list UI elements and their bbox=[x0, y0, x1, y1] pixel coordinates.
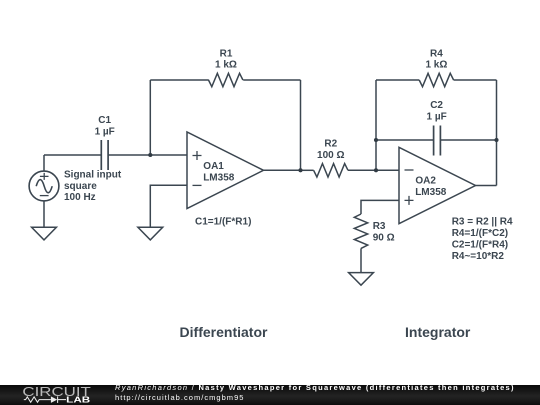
junction node (x=376 / C2 left) bbox=[374, 138, 378, 142]
op-amp U1 OA1 triangle bbox=[187, 132, 264, 209]
svg-text:R4=1/(F*C2): R4=1/(F*C2) bbox=[452, 228, 508, 239]
wire C2 left bbox=[376, 139, 434, 141]
svg-text:OA2: OA2 bbox=[415, 176, 436, 187]
OA1 - input pin symbol bbox=[193, 184, 202, 186]
OA2 - input pin symbol bbox=[405, 169, 414, 171]
wire C1 to OA1 + input bbox=[108, 154, 187, 156]
CircuitLab logo bbox=[0, 384, 110, 405]
svg-text:R2: R2 bbox=[324, 139, 337, 150]
wire OA2 output bbox=[476, 185, 497, 187]
wire R1 left column bbox=[149, 80, 151, 155]
svg-text:100 Hz: 100 Hz bbox=[64, 192, 96, 203]
svg-text:1 µF: 1 µF bbox=[95, 126, 115, 137]
svg-text:LM358: LM358 bbox=[203, 172, 235, 183]
svg-text:Differentiator: Differentiator bbox=[180, 324, 268, 340]
wire R4 right column bbox=[496, 80, 498, 186]
svg-text:1 kΩ: 1 kΩ bbox=[215, 60, 237, 71]
svg-text:OA1: OA1 bbox=[203, 161, 224, 172]
svg-text:LM358: LM358 bbox=[415, 187, 447, 198]
svg-text:R3: R3 bbox=[373, 221, 386, 232]
wire R1 right column down to OA1 output bbox=[300, 80, 302, 170]
wire source top to main line bbox=[43, 155, 45, 171]
resistor R1 bbox=[150, 73, 300, 86]
footer bar bbox=[0, 385, 540, 405]
resistor R3 bbox=[354, 214, 367, 273]
capacitor C2 bbox=[434, 126, 441, 156]
svg-text:R4: R4 bbox=[430, 49, 443, 60]
op-amp U2 OA2 triangle bbox=[399, 147, 476, 223]
capacitor C1 bbox=[101, 140, 108, 170]
junction node (OA1 output / R1 / R2) bbox=[298, 168, 302, 172]
voltage source V1 (square signal input) bbox=[29, 171, 59, 201]
wire OA1 - input to ground bbox=[150, 185, 187, 227]
svg-text:C1=1/(F*R1): C1=1/(F*R1) bbox=[195, 217, 251, 228]
svg-text:1 µF: 1 µF bbox=[426, 112, 446, 123]
wire main line to C1 bbox=[44, 154, 101, 156]
svg-text:Integrator: Integrator bbox=[405, 324, 471, 340]
junction node (C1 / R1 / OA1+) bbox=[148, 153, 152, 157]
svg-text:Signal input: Signal input bbox=[64, 170, 122, 181]
wire column x=376 up to R4/C2 bbox=[375, 80, 377, 170]
svg-text:R4~=10*R2: R4~=10*R2 bbox=[452, 251, 505, 262]
svg-text:1 kΩ: 1 kΩ bbox=[425, 60, 447, 71]
ground (OA1 inverting input) bbox=[138, 227, 163, 240]
svg-text:C1: C1 bbox=[98, 115, 111, 126]
resistor R4 bbox=[376, 73, 497, 86]
wire source bottom to ground bbox=[43, 201, 45, 227]
svg-text:R3 = R2 || R4: R3 = R2 || R4 bbox=[452, 217, 513, 228]
junction node (C2 right / R4 right) bbox=[494, 138, 498, 142]
svg-text:C2: C2 bbox=[430, 100, 443, 111]
svg-text:90 Ω: 90 Ω bbox=[373, 233, 395, 244]
wire C2 right bbox=[440, 139, 496, 141]
svg-text:C2=1/(F*R4): C2=1/(F*R4) bbox=[452, 240, 508, 251]
OA1 + input pin symbol bbox=[193, 151, 202, 160]
resistor R2 bbox=[301, 164, 377, 177]
svg-text:square: square bbox=[64, 181, 97, 192]
svg-text:LAB: LAB bbox=[66, 396, 90, 405]
footer attribution text bbox=[115, 383, 540, 403]
wire OA1 output bbox=[264, 169, 301, 171]
OA2 + input pin symbol bbox=[405, 196, 414, 205]
ground (below source) bbox=[32, 227, 57, 240]
svg-text:100 Ω: 100 Ω bbox=[317, 150, 344, 161]
svg-text:R1: R1 bbox=[220, 49, 233, 60]
junction node (R2 / R4 / C2 / OA2-) bbox=[374, 168, 378, 172]
ground (below R3) bbox=[349, 273, 374, 286]
wire OA2 + input to R3 bbox=[361, 200, 399, 214]
wire R2 to OA2 - input bbox=[376, 169, 399, 171]
